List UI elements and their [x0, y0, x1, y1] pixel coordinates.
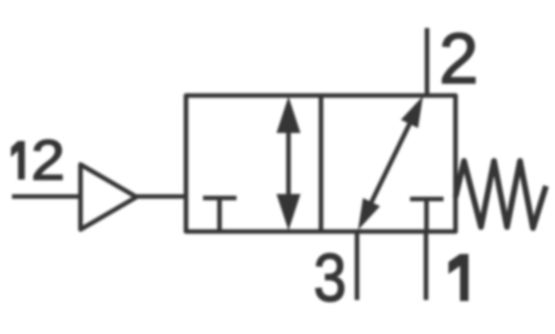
return spring: [456, 161, 547, 228]
label 12 digit 1 stem: [18, 141, 25, 180]
arrowhead diagonal bottom: [358, 198, 380, 230]
label 12 digit 1 flag: [11, 141, 18, 157]
valve body position divider: [319, 96, 324, 232]
label 1 stem: [460, 254, 469, 301]
wire port 3: [355, 232, 360, 301]
blocked port symbol left box: [203, 196, 237, 201]
svg-text:3: 3: [314, 240, 347, 316]
wire pilot to body: [137, 194, 187, 199]
flow path double arrow left box shaft: [286, 124, 291, 203]
valve body left position box: [186, 96, 456, 232]
pilot actuator triangle: [81, 165, 137, 230]
svg-text:2: 2: [439, 20, 479, 99]
svg-text:2: 2: [31, 129, 65, 193]
arrowhead up left box: [277, 97, 301, 134]
wire pilot line 12: [12, 194, 80, 199]
wire port 1: [424, 232, 429, 301]
blocked port symbol right box: [410, 197, 444, 202]
wire port 2: [425, 28, 430, 96]
arrowhead down left box: [277, 194, 301, 231]
label 1 flag: [449, 254, 461, 274]
arrowhead diagonal top: [401, 96, 423, 128]
flow path diagonal arrow right box shaft: [371, 123, 410, 203]
